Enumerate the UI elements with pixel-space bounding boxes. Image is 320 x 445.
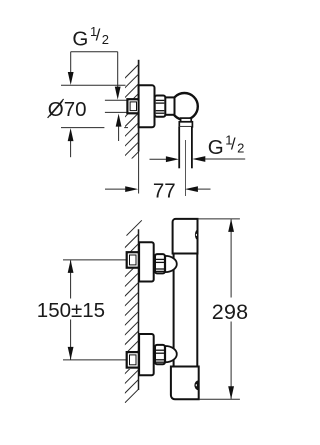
svg-text:2: 2 bbox=[102, 32, 109, 47]
svg-text:150±15: 150±15 bbox=[37, 299, 105, 322]
connector block between nut and body bbox=[165, 97, 175, 114]
lower union nut (bottom view) bbox=[155, 345, 165, 364]
wall face extension down to 77 dimension (thin) bbox=[138, 152, 140, 194]
text G1/2 upper bbox=[72, 24, 109, 51]
bottom cap of body bbox=[171, 367, 199, 400]
O70 lower extension line bbox=[61, 127, 104, 129]
lower escutcheon (bottom view) bbox=[139, 334, 154, 375]
150 dimension lower extension line bbox=[63, 359, 127, 361]
outlet pipe walls bbox=[179, 127, 192, 169]
upper escutcheon (bottom view) bbox=[139, 242, 154, 281]
upper union square (bottom view) bbox=[127, 252, 139, 268]
arrow leg right (to union thread line) bbox=[117, 52, 119, 88]
outlet collar bbox=[179, 122, 192, 127]
svg-text:77: 77 bbox=[153, 179, 176, 202]
O70 lower outside arrow bbox=[70, 141, 72, 158]
lower connection dome bbox=[165, 346, 177, 362]
svg-text:Ø70: Ø70 bbox=[48, 98, 87, 121]
top cap of body bbox=[173, 219, 198, 254]
union square thread extension lines bbox=[105, 99, 128, 101]
svg-text:2: 2 bbox=[237, 141, 244, 156]
wall face line (top view, thick along wall) bbox=[138, 60, 140, 152]
upper connection dome bbox=[165, 256, 177, 272]
77 dimension line with outside arrows bbox=[105, 188, 126, 190]
150 dimension upper extension line bbox=[63, 259, 127, 261]
union square (wall connection, top view) bbox=[127, 99, 139, 113]
union nut (top view) bbox=[155, 96, 166, 117]
pipe OD dimension left arrow bbox=[150, 158, 167, 160]
G 1/2 label line (upper-left) bbox=[71, 51, 118, 53]
knob mark upper (black half ellipse on right edge) bbox=[195, 229, 198, 240]
upper union nut (bottom view) bbox=[155, 254, 165, 273]
pipe centerline bbox=[185, 140, 187, 196]
G1/2 leader (lower-right), arrow to pipe bbox=[192, 156, 205, 162]
valve body circle (top view) bbox=[171, 93, 198, 120]
svg-text:/: / bbox=[96, 26, 101, 45]
298 extension lines bbox=[198, 218, 240, 220]
outlet neck bbox=[181, 118, 192, 122]
O70 upper extension line bbox=[61, 84, 126, 86]
svg-text:298: 298 bbox=[212, 300, 248, 324]
arrow leg left (to O70 upper extension line) bbox=[70, 52, 72, 74]
150+-15 dimension line and arrows bbox=[70, 261, 72, 299]
lower union square (bottom view) bbox=[127, 352, 139, 368]
text G1/2 lower right bbox=[208, 133, 245, 160]
escutcheon (top view, side) bbox=[139, 85, 155, 127]
svg-text:G: G bbox=[72, 28, 88, 51]
svg-text:G: G bbox=[208, 136, 224, 159]
main body (middle section) bbox=[174, 254, 198, 367]
knob mark lower bbox=[194, 380, 198, 390]
svg-text:/: / bbox=[231, 134, 236, 153]
wall face line (bottom view) bbox=[138, 229, 140, 390]
G1/2 lower outside arrow (union) bbox=[118, 126, 120, 141]
wall hatching (bottom view) bbox=[123, 234, 139, 405]
wall hatching (top view) bbox=[123, 64, 139, 177]
298 dimension line and arrows bbox=[230, 220, 232, 298]
first hatch line overshooting wall top (bottom view) bbox=[127, 220, 142, 235]
